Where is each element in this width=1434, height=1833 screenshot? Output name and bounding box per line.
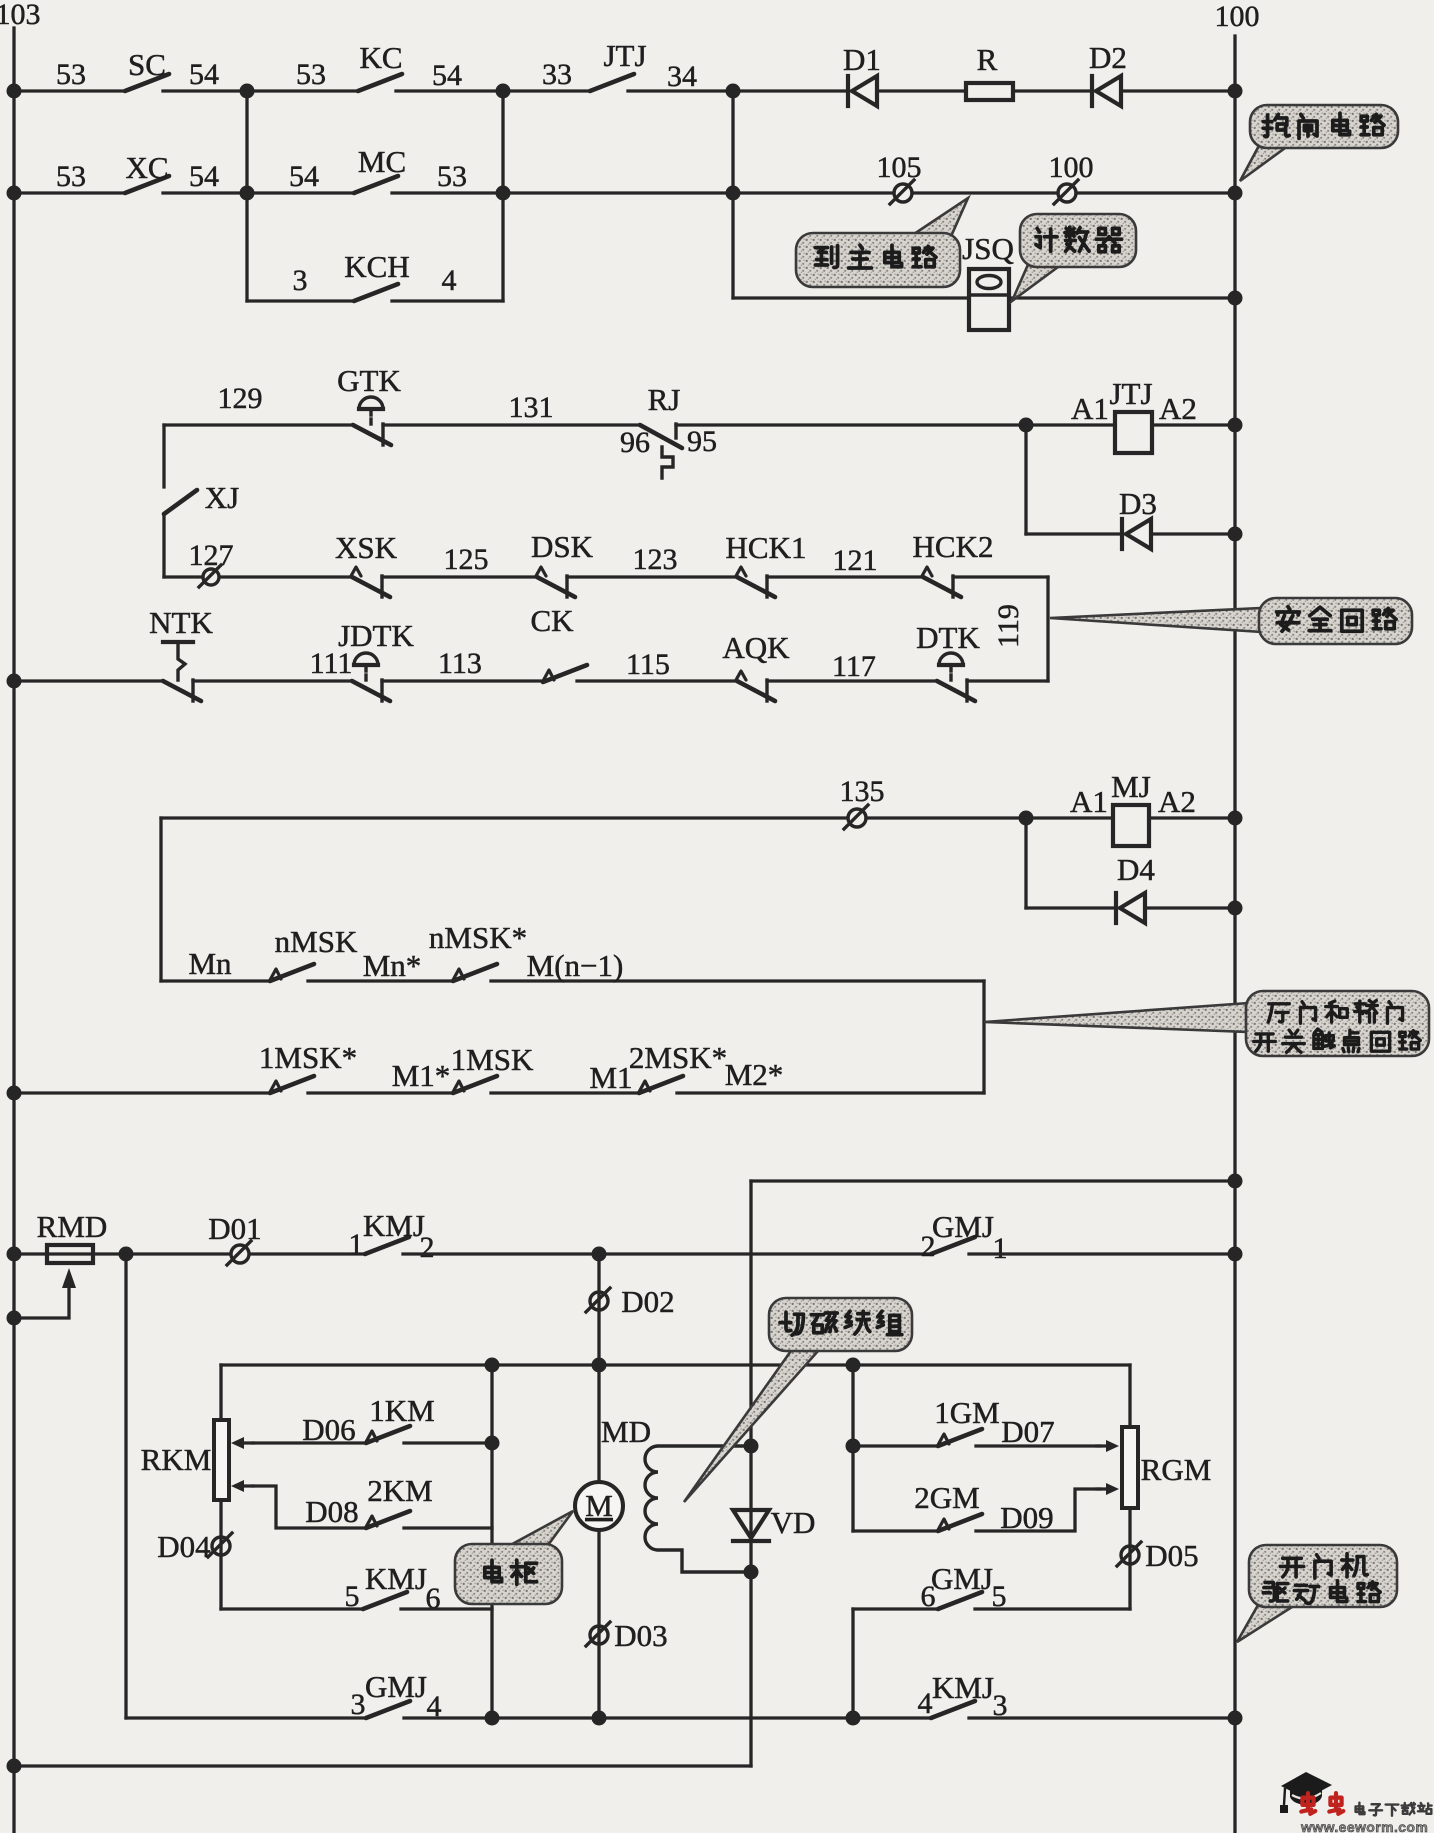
pushbutton GTK head [359, 397, 383, 424]
watermark logo cap [1280, 1772, 1332, 1813]
wire CK to AQK [577, 679, 737, 682]
svg-text:M1*: M1* [392, 1058, 451, 1093]
wire node I to D01 [126, 1252, 230, 1255]
contact HCK2 (NC limit) [922, 567, 961, 597]
svg-text:HCK1: HCK1 [726, 530, 807, 565]
wire 2GM jog to RGM [976, 1489, 1100, 1531]
contact 2GM (NO) [938, 1514, 982, 1531]
terminal marker 127 [199, 565, 221, 587]
wire node D to MC [247, 191, 354, 194]
svg-text:2GM: 2GM [914, 1480, 979, 1515]
wire right bus 100 vertical [1233, 36, 1236, 1833]
svg-text:KC: KC [359, 40, 402, 75]
svg-text:VD: VD [771, 1505, 816, 1540]
wire D2 to right bus [1121, 89, 1235, 92]
node G junction [1019, 418, 1034, 433]
svg-text:D07: D07 [1001, 1414, 1054, 1449]
wire nMSK to nMSK* [308, 979, 453, 982]
wire winding branch through VD [749, 1446, 752, 1572]
wire node J to GMJ contact [599, 1252, 931, 1255]
wire door row from left bus [14, 1091, 270, 1094]
node B junction [496, 84, 511, 99]
diode VD (freewheel) [733, 1510, 769, 1541]
node winding bottom [744, 1565, 759, 1580]
wire 2KM to vertical x492 [404, 1526, 492, 1529]
wire 129 row from left column [164, 423, 353, 426]
svg-text:JTJ: JTJ [603, 38, 646, 73]
svg-text:GMJ: GMJ [932, 1209, 994, 1244]
svg-text:54: 54 [189, 58, 219, 91]
wire XJ down to 127 row [162, 514, 165, 577]
svg-text:JTJ: JTJ [1109, 376, 1152, 411]
wire bottom row from box corner [126, 1716, 366, 1719]
callout bao-zha-dian-lu (brake circuit) [1240, 105, 1398, 181]
wire D4 to right bus [1145, 906, 1235, 909]
node rkm-row junction x492 [485, 1358, 500, 1373]
watermark chong-chong red text [1301, 1793, 1315, 1814]
wire KMJ to node J [403, 1252, 599, 1255]
wire KMJ56 row left [221, 1607, 363, 1610]
svg-text:A1: A1 [1070, 784, 1108, 819]
wire HCK2 to 119 bracket [953, 575, 1048, 578]
wire D3 row left [1026, 532, 1122, 535]
svg-text:127: 127 [189, 539, 234, 572]
svg-text:D09: D09 [1000, 1500, 1053, 1535]
node left bus row2 [7, 186, 22, 201]
contact 2MSK* (NO) [639, 1076, 683, 1093]
node right bus MJ row [1228, 811, 1243, 826]
svg-text:M: M [585, 1488, 613, 1523]
callout dao-zhu-dian-lu (to main circuit) [796, 198, 968, 287]
wire node A to KC [247, 89, 358, 92]
wire 127 to XSK [220, 575, 352, 578]
wire 135 to node H [866, 816, 1026, 819]
wire MJ coil to right bus [1149, 816, 1235, 819]
node I junction [119, 1247, 134, 1262]
node H junction [1019, 811, 1034, 826]
wire RJ to node G [676, 423, 1026, 426]
node D junction [240, 186, 255, 201]
svg-text:5: 5 [345, 1580, 360, 1613]
svg-text:nMSK*: nMSK* [429, 920, 527, 955]
svg-text:117: 117 [832, 650, 876, 683]
arrow into RGM from D09 [1097, 1483, 1119, 1495]
node F junction on 733 vertical [726, 186, 741, 201]
svg-text:2: 2 [420, 1231, 435, 1264]
diode D4 [1116, 893, 1145, 923]
svg-text:1GM: 1GM [934, 1395, 999, 1430]
wire vertical x492 RKM side [490, 1365, 493, 1718]
wire 1GM to RGM arrow [976, 1444, 1100, 1447]
terminal marker D01 [227, 1241, 251, 1265]
contact nMSK (NO) [270, 964, 314, 981]
node J junction motor column [592, 1247, 607, 1262]
svg-text:54: 54 [289, 160, 319, 193]
svg-text:123: 123 [633, 543, 678, 576]
node x492 1KM row [485, 1436, 500, 1451]
callout an-quan-hui-lu (safety loop) [1050, 598, 1412, 644]
wire motor column lower [597, 1530, 600, 1718]
wire 1KM to node x492 [404, 1441, 492, 1444]
contact CK (NO limit) [543, 665, 587, 682]
terminal marker D04 [208, 1533, 232, 1557]
contact KCH (NO) [354, 284, 398, 301]
node right bus D3 row [1228, 527, 1243, 542]
callout qie-ci-rao-zu (field winding) [684, 1298, 912, 1502]
wire RGM bottom to D05 [1128, 1508, 1131, 1609]
svg-text:CK: CK [530, 603, 574, 638]
wire 127 row start [164, 575, 200, 578]
svg-text:95: 95 [687, 425, 717, 458]
node right bus KMJ row [1228, 1247, 1243, 1262]
wire 105 to terminal 100 [912, 191, 1058, 194]
node A junction [240, 84, 255, 99]
pushbutton JDTK head [354, 653, 378, 680]
svg-text:125: 125 [444, 543, 489, 576]
svg-text:1: 1 [993, 1232, 1008, 1265]
wire KMJ43 to right bus [969, 1716, 1235, 1719]
wire vertical x853 GM side [851, 1365, 854, 1531]
node right bus JSQ row [1228, 291, 1243, 306]
wire node C to diode D1 [733, 89, 848, 92]
resistor RGM [1122, 1427, 1138, 1508]
contact GMJ 6-5 (NO) [938, 1592, 982, 1609]
svg-text:129: 129 [218, 382, 263, 415]
contact DSK (NC limit) [536, 567, 575, 597]
node bottom x599 [592, 1711, 607, 1726]
svg-text:100: 100 [1215, 0, 1260, 33]
wire row1 segment 103 to SC [14, 89, 125, 92]
svg-text:M(n−1): M(n−1) [527, 948, 624, 983]
wire JSQ to right bus [1009, 296, 1235, 299]
contact MC (NO) [354, 176, 398, 193]
terminal marker D03 [586, 1622, 610, 1646]
terminal marker D02 [586, 1288, 610, 1312]
wire KCH right segment [392, 299, 503, 302]
svg-text:D4: D4 [1117, 852, 1155, 887]
svg-text:105: 105 [877, 151, 922, 184]
wire KMJ56 to x492 [401, 1607, 492, 1610]
svg-text:D06: D06 [302, 1412, 355, 1447]
svg-text:RGM: RGM [1141, 1452, 1212, 1487]
wire DSK to HCK1 [567, 575, 737, 578]
wire SC to node A [163, 89, 247, 92]
callout dian-shu (armature) [455, 1511, 573, 1604]
wire RMD to node I [93, 1252, 126, 1255]
wire motor column upper [597, 1254, 600, 1365]
svg-text:4: 4 [442, 264, 457, 297]
motor MD armature circle [575, 1482, 623, 1530]
wire branch top y1181 [751, 1179, 1235, 1182]
svg-text:4: 4 [918, 1687, 933, 1720]
contact AQK (NC limit) [736, 671, 775, 701]
svg-text:D08: D08 [305, 1494, 358, 1529]
wire winding branch vertical upper [749, 1181, 752, 1446]
svg-text:KMJ: KMJ [932, 1670, 994, 1705]
svg-text:103: 103 [0, 0, 41, 31]
contact KMJ 5-6 (NO) [363, 1592, 407, 1609]
svg-text:D05: D05 [1145, 1538, 1198, 1573]
contact DTK (NC mushroom) [937, 680, 975, 701]
svg-text:D2: D2 [1089, 40, 1127, 75]
node left bus RMD row [7, 1247, 22, 1262]
contact KMJ 4-3 (NO) [931, 1701, 975, 1718]
svg-text:HCK2: HCK2 [913, 529, 994, 564]
node C junction [726, 84, 741, 99]
wire row2 103 to XC [14, 191, 125, 194]
svg-text:53: 53 [56, 160, 86, 193]
wire 2MSK* to box corner [677, 1091, 984, 1094]
wire left column 129 row down to XJ [162, 425, 165, 487]
svg-text:MC: MC [358, 144, 406, 179]
wire node E to vertical 733 [503, 191, 733, 194]
wire GTK to RJ [383, 423, 640, 426]
contact XSK (NC limit) [351, 567, 390, 597]
wire D06 row [253, 1441, 366, 1444]
contact JTJ (NO relay contact) [590, 74, 634, 91]
node left bus safety row [7, 674, 22, 689]
svg-text:MD: MD [601, 1414, 651, 1449]
wire JSQ row left [733, 296, 969, 299]
callout ji-shu-qi (counter) [1012, 214, 1136, 301]
svg-text:GTK: GTK [337, 363, 401, 398]
svg-text:Mn*: Mn* [363, 948, 422, 983]
node right bus bottom row [1228, 1711, 1243, 1726]
relay coil JTJ [1115, 412, 1152, 453]
wire 119 bracket vertical [1046, 577, 1049, 681]
node left bus door row [7, 1086, 22, 1101]
wire RKM column bottom [219, 1500, 222, 1609]
svg-text:D03: D03 [614, 1618, 667, 1653]
counter JSQ [969, 269, 1009, 330]
contact SC (NO) [125, 74, 169, 91]
svg-text:GMJ: GMJ [931, 1561, 993, 1596]
wire left bus 103 vertical [12, 28, 15, 1833]
wire NTK to JDTK [193, 679, 352, 682]
svg-text:53: 53 [56, 58, 86, 91]
svg-text:1MSK*: 1MSK* [259, 1040, 357, 1075]
wire D3 to right bus [1151, 532, 1235, 535]
wire KCH left segment [247, 299, 354, 302]
relay coil MJ [1113, 805, 1149, 846]
svg-text:121: 121 [833, 544, 878, 577]
svg-text:135: 135 [840, 775, 885, 808]
wire GMJ to right bus [969, 1252, 1235, 1255]
svg-text:3: 3 [293, 264, 308, 297]
svg-text:96: 96 [620, 426, 650, 459]
svg-text:33: 33 [542, 58, 572, 91]
wire DTK to 119 bracket bottom [967, 679, 1048, 682]
svg-text:DSK: DSK [531, 529, 594, 564]
svg-text:AQK: AQK [722, 630, 790, 665]
wire D01 to KMJ contact [250, 1252, 365, 1255]
svg-text:Mn: Mn [188, 946, 232, 981]
svg-text:131: 131 [509, 391, 554, 424]
wire D1 to resistor R [877, 89, 966, 92]
wire outer box left vertical [124, 1254, 127, 1718]
svg-text:2MSK*: 2MSK* [629, 1040, 727, 1075]
contact 2KM (NO) [366, 1511, 410, 1528]
svg-text:1: 1 [349, 1228, 364, 1261]
wire R to diode D2 [1013, 89, 1092, 92]
wire Mn row start [161, 979, 270, 982]
wire vertical 733 row1 to JSQ row [731, 91, 734, 298]
contact XC (NO) [125, 176, 169, 193]
svg-text:MJ: MJ [1111, 769, 1151, 804]
svg-text:NTK: NTK [149, 605, 213, 640]
svg-text:A1: A1 [1071, 391, 1109, 426]
wire vertical x853 lower [851, 1609, 854, 1718]
wire GMJ34 to node x492 [404, 1716, 599, 1719]
diode D3 [1122, 519, 1151, 549]
wire nMSK* to box corner [491, 979, 984, 982]
node x853 1GM row [846, 1439, 861, 1454]
svg-text:D01: D01 [208, 1211, 261, 1246]
wire node B to JTJ contact [503, 89, 590, 92]
svg-text:JSQ: JSQ [962, 231, 1014, 266]
wire node F to terminal 105 [733, 191, 894, 194]
svg-text:JDTK: JDTK [338, 618, 414, 653]
node E junction [496, 186, 511, 201]
wire bottom return to left bus [14, 1764, 751, 1767]
wire 1MSK* to 1MSK [308, 1091, 453, 1094]
node winding top [744, 1439, 759, 1454]
node right bus row1 [1228, 84, 1243, 99]
svg-text:XJ: XJ [205, 480, 239, 515]
node rkm-row junction x853 [846, 1358, 861, 1373]
contact 1MSK (NO) [453, 1076, 497, 1093]
node right bus JTJ coil row [1228, 418, 1243, 433]
wire D4 row left [1026, 906, 1116, 909]
contact XJ (NO vertical) [164, 490, 197, 514]
svg-text:54: 54 [432, 59, 462, 92]
svg-text:XSK: XSK [335, 530, 398, 565]
contact KC (NO) [358, 74, 402, 91]
arrow into RKM from D06 [231, 1437, 253, 1449]
svg-text:D1: D1 [843, 42, 881, 77]
terminal marker 135 [844, 805, 868, 829]
contact RJ thermal overload (NC) [640, 424, 682, 478]
contact 1KM (NO) [366, 1426, 410, 1443]
wire winding branch vertical lower [749, 1572, 752, 1766]
svg-text:KCH: KCH [344, 249, 409, 284]
svg-text:100: 100 [1049, 151, 1094, 184]
contact 1GM (NO) [938, 1429, 982, 1446]
node left bus bottom return [7, 1759, 22, 1774]
arrow into RGM from D07 [1097, 1440, 1119, 1452]
node right bus D4 row [1228, 901, 1243, 916]
wire GMJ65 row left [853, 1607, 938, 1610]
contact GMJ 3-4 (NO) [366, 1701, 410, 1718]
node left bus wiper row [7, 1311, 22, 1326]
wire vertical link node A to node D to KCH [245, 91, 248, 301]
wire RKM column top [219, 1365, 222, 1420]
node rkm-row junction x599 [592, 1358, 607, 1373]
wire GMJ65 row right [975, 1607, 1130, 1610]
resistor RMD (variable) [47, 1245, 93, 1263]
wire RKM top corner to RGM top corner [221, 1363, 1130, 1366]
arrow into RKM from D08 [231, 1480, 253, 1492]
node right bus y1181 [1228, 1174, 1243, 1189]
wire 1MSK to 2MSK* [491, 1091, 639, 1094]
svg-text:M2*: M2* [725, 1057, 784, 1092]
svg-text:R: R [977, 42, 998, 77]
svg-text:DTK: DTK [916, 620, 980, 655]
contact KMJ 1-2 (NO) [365, 1237, 409, 1254]
contact GMJ 2-1 (NO) [931, 1237, 975, 1254]
svg-text:54: 54 [189, 160, 219, 193]
svg-text:1MSK: 1MSK [451, 1042, 534, 1077]
svg-text:XC: XC [125, 150, 168, 185]
svg-text:113: 113 [438, 647, 482, 680]
wire MC to node E [392, 191, 503, 194]
contact JDTK (NC mushroom) [352, 680, 390, 701]
node bottom x853 [846, 1711, 861, 1726]
wire AQK to DTK [767, 679, 937, 682]
terminal marker 100 [1054, 180, 1078, 204]
svg-text:2KM: 2KM [367, 1473, 432, 1508]
svg-text:GMJ: GMJ [365, 1669, 427, 1704]
resistor R [966, 83, 1013, 100]
diode D2 [1092, 76, 1121, 106]
contact 1MSK* (NO) [270, 1076, 314, 1093]
wire 1GM row left [853, 1444, 938, 1447]
svg-text:3: 3 [351, 1688, 366, 1721]
contact nMSK* (NO) [453, 964, 497, 981]
wire XC to node D [163, 191, 247, 194]
wire XSK to DSK [382, 575, 537, 578]
wire 100 to right bus [1076, 191, 1235, 194]
arrow wiper of RMD from left bus [14, 1268, 76, 1318]
resistor RKM [214, 1420, 229, 1500]
wire vertical node H down to D4 [1024, 818, 1027, 908]
node right bus 105-100 row [1228, 186, 1243, 201]
wire HCK1 to HCK2 [767, 575, 923, 578]
svg-text:RJ: RJ [648, 382, 681, 417]
contact HCK1 (NC limit) [736, 567, 775, 597]
wire left bus to RMD [14, 1252, 47, 1255]
svg-text:RKM: RKM [141, 1442, 212, 1477]
wire JTJ coil to right bus [1152, 423, 1235, 426]
svg-text:nMSK: nMSK [275, 924, 358, 959]
wire MJ row left column vertical [159, 818, 162, 981]
wire door box right edge vertical [982, 981, 985, 1093]
wire vertical node G down to D3 [1024, 425, 1027, 534]
svg-text:115: 115 [626, 648, 670, 681]
callout kai-men-ji (door operator drive circuit) [1237, 1545, 1397, 1642]
field winding MD (qie-ci winding) [645, 1446, 751, 1572]
wire 2GM row left [853, 1529, 938, 1532]
svg-text:D3: D3 [1119, 486, 1157, 521]
wire MJ row left column corner [161, 816, 848, 819]
wire KC to node B [396, 89, 503, 92]
svg-text:5: 5 [992, 1580, 1007, 1613]
svg-text:1KM: 1KM [369, 1393, 434, 1428]
callout ting-men (hall and car door switch contact loop) [984, 991, 1429, 1056]
wire JDTK to CK [382, 679, 543, 682]
svg-text:RMD: RMD [37, 1209, 108, 1244]
svg-text:119: 119 [992, 604, 1025, 648]
wire safety row from left bus [14, 679, 163, 682]
svg-text:34: 34 [667, 60, 697, 93]
wire RGM top link [1128, 1365, 1131, 1427]
node left bus row1 [7, 84, 22, 99]
svg-text:A2: A2 [1159, 391, 1197, 426]
svg-text:SC: SC [128, 47, 166, 82]
diode D1 [848, 76, 877, 106]
wire D08 jog [253, 1486, 366, 1528]
terminal marker 105 [890, 180, 914, 204]
